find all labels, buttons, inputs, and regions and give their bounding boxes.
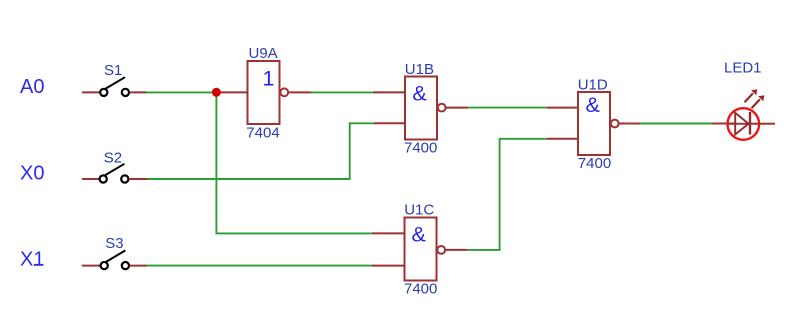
svg-text:7400: 7400 [404, 281, 437, 298]
wire S1 pin stub [130, 91, 147, 93]
wire U1C to U1D riser (green) [468, 139, 547, 250]
svg-text:&: & [412, 222, 426, 246]
switch S2 [100, 164, 129, 183]
svg-text:U1D: U1D [578, 76, 608, 93]
wire X0 terminal to S2 [82, 178, 100, 180]
wire S3 pin stub [130, 265, 147, 267]
transistor U1D NAND 7400 [578, 92, 619, 155]
svg-text:X1: X1 [20, 249, 44, 271]
wire U1B input2 stub [374, 122, 405, 124]
wire junction riser to U1C (green) [216, 92, 372, 233]
wire U1B output stub [446, 107, 468, 109]
wire LED1 cathode stub [760, 123, 776, 125]
wire A0 terminal to S1 [82, 91, 100, 93]
wire U1C input1 stub [372, 232, 405, 234]
wire U9A to U1B (green) [311, 91, 373, 93]
wire LED1 anode stub [712, 123, 735, 125]
svg-text:7400: 7400 [404, 140, 437, 157]
wire U1B to U1D (green) [468, 107, 547, 109]
wire S3 to U1C (green) [147, 265, 373, 267]
svg-text:7400: 7400 [578, 155, 611, 172]
wire U1D input2 stub [547, 138, 578, 140]
wire S2 pin stub [129, 178, 147, 180]
svg-text:7404: 7404 [246, 125, 279, 142]
switch S1 [100, 77, 129, 96]
wire U9A output stub [289, 91, 312, 93]
svg-text:S3: S3 [105, 235, 123, 252]
LED LED1 [728, 89, 765, 140]
svg-text:&: & [586, 93, 600, 117]
transistor U1C NAND 7400 [405, 218, 446, 281]
node junction A0 [212, 88, 221, 97]
svg-text:A0: A0 [20, 76, 44, 98]
svg-text:U9A: U9A [249, 45, 278, 62]
transistor U1B NAND 7400 [405, 77, 446, 140]
wire junction to U9A input [216, 91, 247, 93]
svg-text:X0: X0 [20, 162, 44, 184]
svg-text:1: 1 [263, 67, 275, 91]
svg-text:S1: S1 [104, 62, 122, 79]
switch S3 [101, 250, 129, 269]
wire U1C input2 stub [372, 265, 405, 267]
wire S2 to riser (green) [147, 123, 374, 179]
wire U1D output stub [619, 123, 640, 125]
wire U1D input1 stub [547, 107, 578, 109]
wire U1B input1 stub [373, 91, 405, 93]
wire S1 to junction (green) [147, 91, 217, 93]
svg-text:LED1: LED1 [724, 60, 762, 77]
wire U1C output stub [446, 249, 468, 251]
svg-text:&: & [412, 81, 426, 105]
svg-text:S2: S2 [104, 150, 122, 167]
op-amp U9A inverter 7404 [248, 61, 289, 124]
svg-text:U1C: U1C [404, 202, 434, 219]
wire X1 terminal to S3 [82, 265, 100, 267]
wire U1D to LED1 (green) [640, 123, 712, 125]
svg-text:U1B: U1B [405, 61, 434, 78]
